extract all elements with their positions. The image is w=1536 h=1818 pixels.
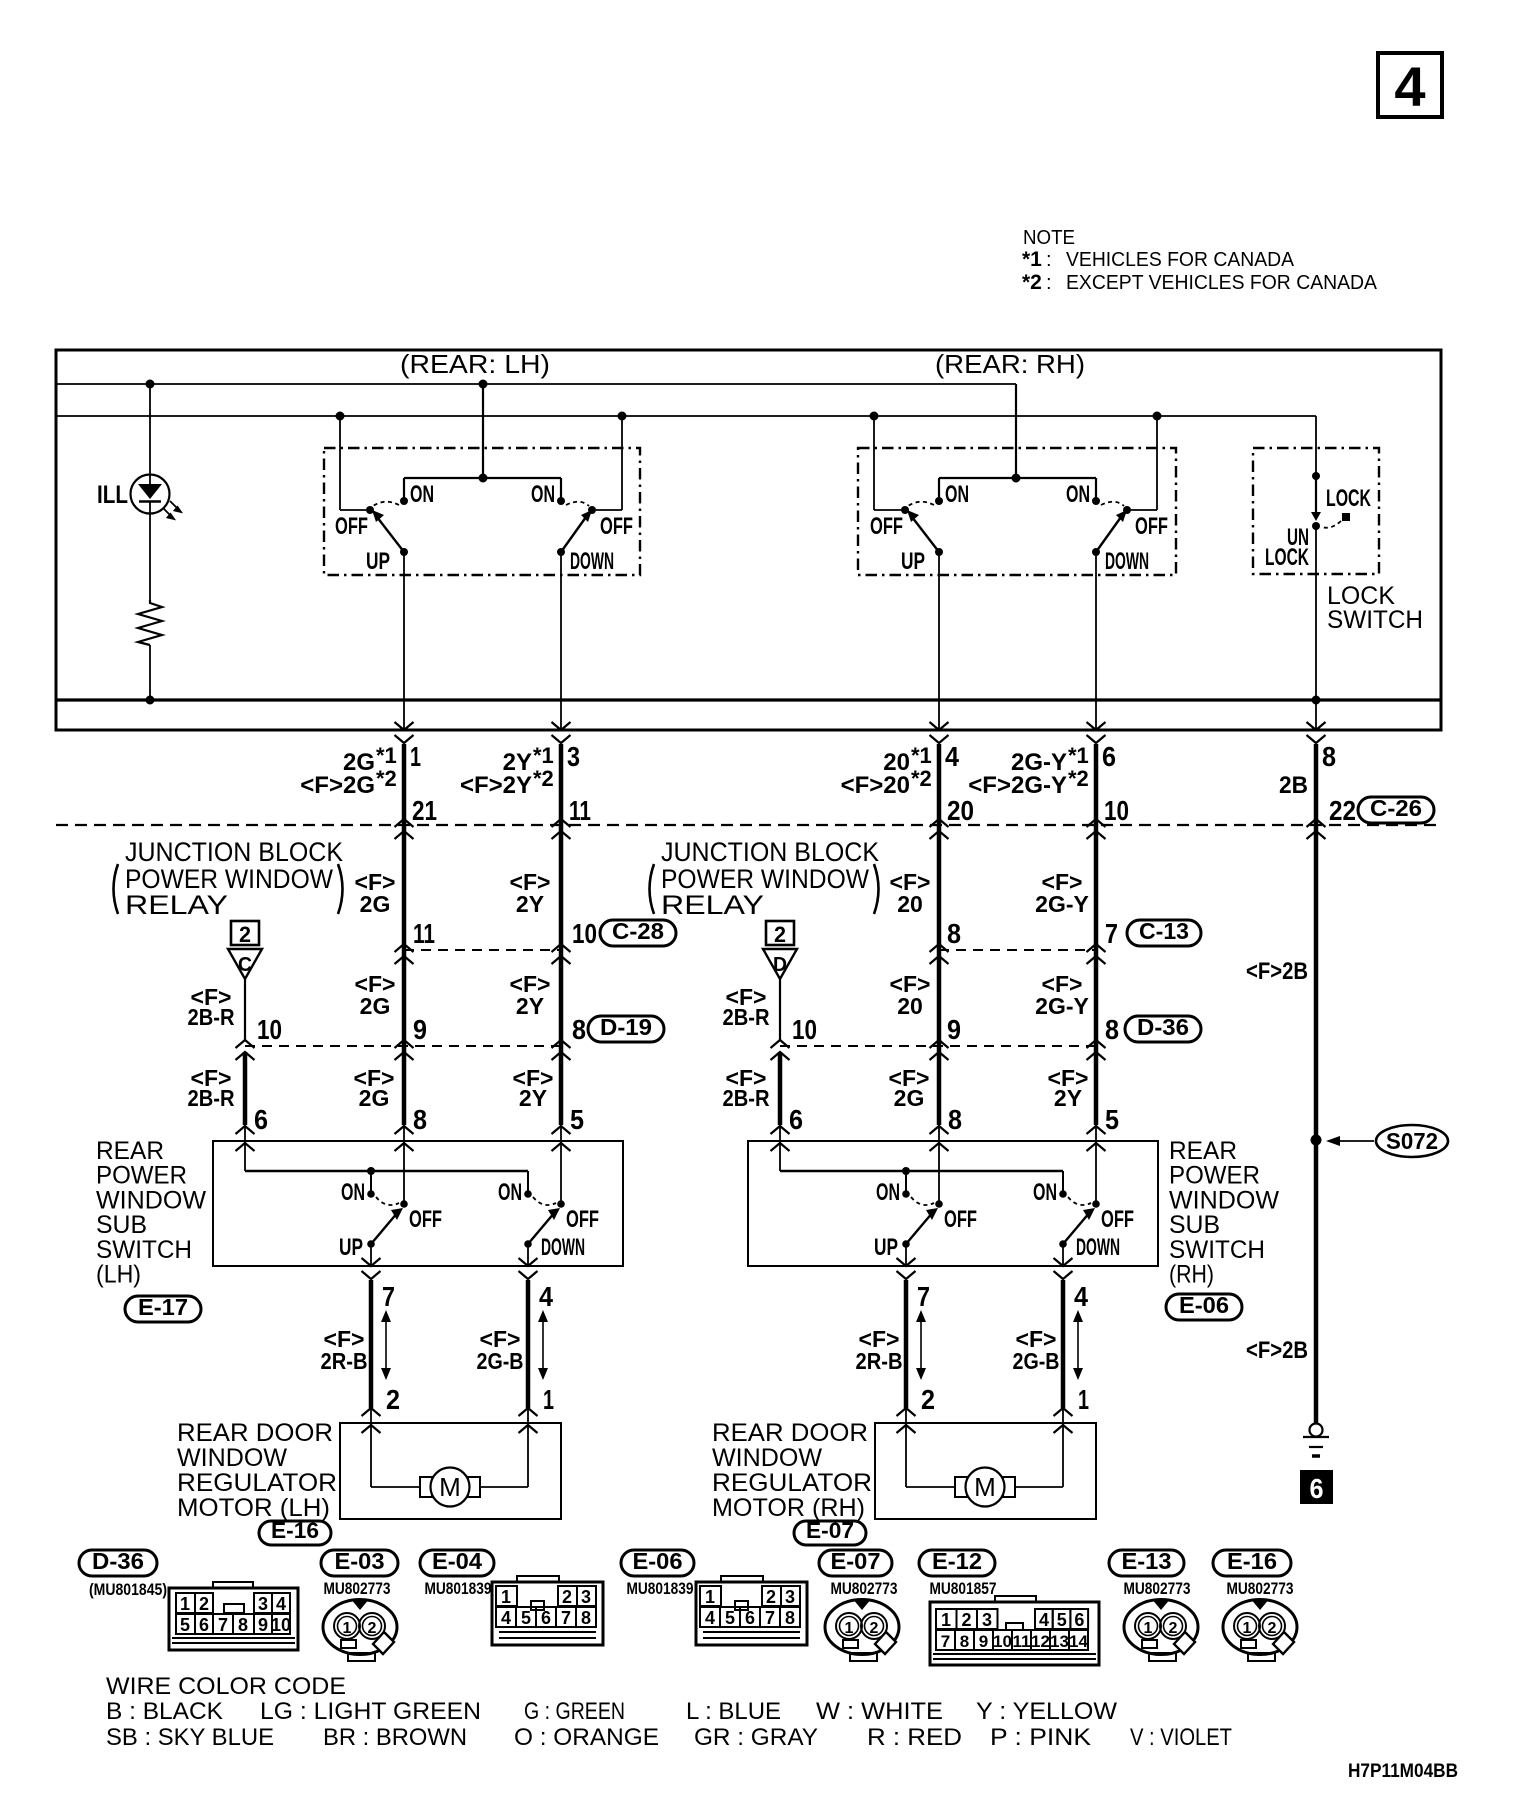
- svg-text:6: 6: [1102, 741, 1116, 772]
- svg-text:2B: 2B: [1279, 772, 1308, 799]
- svg-text:<F>2B: <F>2B: [1246, 1337, 1308, 1364]
- svg-text:RELAY: RELAY: [125, 890, 228, 920]
- svg-text:E-07: E-07: [806, 1518, 854, 1543]
- svg-text:E-04: E-04: [432, 1548, 482, 1574]
- svg-text:ON: ON: [876, 1179, 900, 1206]
- wire 2G-Y vertical thick: [1094, 744, 1099, 1125]
- svg-text:1: 1: [1243, 1620, 1252, 1637]
- svg-text:C-26: C-26: [1370, 795, 1422, 821]
- svg-text:ON: ON: [531, 481, 555, 508]
- svg-text:4: 4: [705, 1608, 715, 1628]
- svg-text:*1: *1: [1068, 743, 1089, 768]
- connector drawing D-36: [169, 1588, 298, 1650]
- svg-text:11: 11: [413, 918, 435, 949]
- svg-text:UP: UP: [339, 1234, 363, 1261]
- connector arrows at main box bottom: [395, 722, 414, 730]
- svg-text:7: 7: [1105, 918, 1118, 949]
- svg-text:C-13: C-13: [1139, 918, 1189, 944]
- contact LOCK square: [1342, 513, 1350, 521]
- dashed arc ON-OFF left: [373, 502, 399, 506]
- svg-text:MU802773: MU802773: [1227, 1579, 1294, 1598]
- svg-text:E-03: E-03: [335, 1548, 385, 1574]
- dashed line relay row RH: [939, 949, 1096, 951]
- rear RH switch dash-dot box: [858, 448, 1176, 575]
- bus wire lower: [56, 415, 1316, 417]
- svg-text:1: 1: [543, 1384, 554, 1415]
- svg-text:REGULATOR: REGULATOR: [177, 1469, 337, 1497]
- svg-text:21: 21: [412, 795, 437, 826]
- sheet ref box 6: [1300, 1470, 1333, 1504]
- svg-text:P : PINK: P : PINK: [990, 1724, 1091, 1751]
- svg-text:D: D: [773, 954, 787, 976]
- svg-text:5: 5: [1057, 1610, 1067, 1630]
- svg-text:E-13: E-13: [1122, 1548, 1172, 1574]
- svg-text:ON: ON: [1066, 481, 1090, 508]
- svg-text:7: 7: [382, 1281, 395, 1312]
- svg-text:OFF: OFF: [409, 1206, 442, 1233]
- rear power window sub switch LH box: [213, 1141, 623, 1266]
- svg-text:*1: *1: [533, 743, 554, 768]
- svg-text:LOCK: LOCK: [1326, 485, 1371, 512]
- svg-text:DOWN: DOWN: [570, 548, 614, 575]
- connector drawing E-06: [696, 1582, 807, 1645]
- wire REAR LH feed: [479, 380, 488, 389]
- svg-text:MU801839: MU801839: [425, 1579, 492, 1598]
- connector label D-36: [79, 1550, 157, 1576]
- svg-text:2: 2: [870, 1620, 879, 1637]
- svg-text:2B-R: 2B-R: [723, 1085, 770, 1111]
- rear door window regulator motor RH: [875, 1423, 1096, 1519]
- svg-text:6: 6: [1310, 1473, 1324, 1504]
- svg-text::: :: [1046, 272, 1052, 294]
- svg-text:2G: 2G: [894, 1085, 925, 1111]
- connector label E-07 bottom: [819, 1550, 892, 1576]
- svg-text:1: 1: [343, 1620, 352, 1637]
- svg-text:V : VIOLET: V : VIOLET: [1130, 1724, 1232, 1751]
- svg-text:G : GREEN: G : GREEN: [524, 1698, 625, 1725]
- svg-text:M: M: [439, 1472, 461, 1502]
- svg-text:ON: ON: [410, 481, 434, 508]
- double arrow RH up: [920, 1320, 922, 1370]
- svg-text:5: 5: [180, 1615, 190, 1635]
- svg-text:BR : BROWN: BR : BROWN: [323, 1724, 467, 1751]
- node ILL ground junction: [146, 696, 155, 705]
- power window main switch outline box: [56, 350, 1441, 730]
- wire 2B-R thick RH: [778, 1052, 783, 1125]
- dashed arc ON-OFF left RH: [908, 502, 934, 506]
- svg-text:9: 9: [413, 1014, 427, 1045]
- svg-text:8: 8: [572, 1014, 586, 1045]
- svg-text:8: 8: [238, 1615, 248, 1635]
- wire RH switch right side: [1153, 412, 1162, 421]
- svg-text:20: 20: [897, 993, 923, 1019]
- wire lock switch to ground bus: [1315, 526, 1317, 700]
- svg-text:DOWN: DOWN: [1105, 548, 1149, 575]
- svg-text:C: C: [238, 954, 252, 976]
- svg-text:2Y: 2Y: [519, 1085, 547, 1111]
- svg-text:B : BLACK: B : BLACK: [106, 1698, 223, 1725]
- svg-text:<F>2Y: <F>2Y: [460, 772, 532, 799]
- wire 20 vertical thick: [937, 744, 942, 1125]
- LH switch common bar: [404, 477, 561, 479]
- svg-text:4: 4: [945, 741, 959, 772]
- svg-text:1: 1: [501, 1587, 511, 1607]
- wire switch output x=1096: [1095, 552, 1097, 730]
- contact OFF right RH: [1123, 506, 1131, 514]
- svg-text:7: 7: [561, 1608, 571, 1628]
- svg-text:*2: *2: [1068, 766, 1089, 791]
- svg-text:4: 4: [1394, 55, 1425, 118]
- svg-text:H7P11M04BB: H7P11M04BB: [1348, 1761, 1458, 1782]
- connector C-28: [600, 920, 676, 946]
- svg-text:2: 2: [921, 1384, 935, 1415]
- wire 2R-B RH: [904, 1280, 909, 1408]
- svg-text:R : RED: R : RED: [867, 1724, 962, 1751]
- contact ON left RH: [935, 497, 943, 505]
- svg-text:WINDOW: WINDOW: [712, 1444, 822, 1472]
- lock switch dash-dot box: [1253, 448, 1379, 574]
- connector E-06 ref: [1166, 1294, 1242, 1320]
- svg-text:EXCEPT VEHICLES FOR CANADA: EXCEPT VEHICLES FOR CANADA: [1066, 272, 1378, 294]
- svg-text:2: 2: [386, 1384, 400, 1415]
- svg-text:4: 4: [276, 1594, 286, 1614]
- connector label E-13: [1109, 1550, 1184, 1576]
- svg-text:Y : YELLOW: Y : YELLOW: [976, 1698, 1117, 1725]
- lock contact upper: [1312, 472, 1320, 480]
- svg-text:4: 4: [539, 1281, 553, 1312]
- node lock ground junction: [1312, 696, 1321, 705]
- svg-text:S072: S072: [1386, 1128, 1438, 1154]
- svg-text:5: 5: [1105, 1104, 1119, 1135]
- double arrow LH up: [385, 1320, 387, 1370]
- svg-text:7: 7: [765, 1608, 775, 1628]
- svg-text:8: 8: [581, 1608, 591, 1628]
- dashed arc ON-OFF right: [566, 502, 589, 506]
- contact ON left: [400, 497, 408, 505]
- wire LH switch left side: [336, 412, 345, 421]
- connector label E-16 bottom: [1213, 1550, 1291, 1576]
- svg-text:2G-Y: 2G-Y: [1035, 891, 1089, 917]
- wire ILL branch: [149, 384, 151, 487]
- wire 2Y vertical thick: [559, 744, 564, 1125]
- svg-text:UP: UP: [874, 1234, 898, 1261]
- svg-text:ON: ON: [341, 1179, 365, 1206]
- svg-text:8: 8: [960, 1632, 969, 1651]
- svg-text:2: 2: [562, 1587, 572, 1607]
- svg-text:JUNCTION BLOCK: JUNCTION BLOCK: [661, 837, 879, 867]
- svg-text:OFF: OFF: [870, 513, 903, 540]
- svg-text:7: 7: [218, 1615, 228, 1635]
- switch blade DOWN: [557, 548, 565, 556]
- dashed arc ON-OFF right RH: [1101, 502, 1124, 506]
- svg-text:(MU801845): (MU801845): [89, 1580, 167, 1599]
- svg-text:E-16: E-16: [1227, 1548, 1277, 1574]
- svg-text:DOWN: DOWN: [541, 1234, 585, 1261]
- svg-text:REAR DOOR: REAR DOOR: [712, 1419, 868, 1447]
- connector drawing E-16: [1223, 1600, 1297, 1655]
- svg-text:ON: ON: [1033, 1179, 1057, 1206]
- node S072: [1311, 1135, 1322, 1146]
- S072 callout: [1338, 1140, 1374, 1142]
- wire 2R-B LH: [369, 1280, 374, 1408]
- switch blade DOWN RH: [1092, 548, 1100, 556]
- svg-text:8: 8: [947, 918, 961, 949]
- wire lock switch feed: [1315, 416, 1317, 476]
- svg-text:E-07: E-07: [831, 1548, 881, 1574]
- svg-text:MU801857: MU801857: [930, 1579, 997, 1598]
- svg-text:2Y: 2Y: [516, 993, 544, 1019]
- svg-text:OFF: OFF: [600, 513, 633, 540]
- svg-text:MU802773: MU802773: [831, 1579, 898, 1598]
- dashed arc lock: [1322, 521, 1341, 528]
- svg-text:W : WHITE: W : WHITE: [816, 1698, 943, 1725]
- svg-text:10: 10: [993, 1632, 1012, 1651]
- ground bus wire: [56, 698, 1441, 701]
- svg-text:LG : LIGHT GREEN: LG : LIGHT GREEN: [260, 1698, 481, 1725]
- svg-text:*1: *1: [911, 743, 932, 768]
- svg-text:*2: *2: [1022, 271, 1042, 294]
- svg-text:*2: *2: [533, 766, 554, 791]
- RH switch common bar: [939, 477, 1096, 479]
- svg-text:2G-Y: 2G-Y: [1035, 993, 1089, 1019]
- svg-text:6: 6: [745, 1608, 755, 1628]
- svg-text:9: 9: [979, 1632, 988, 1651]
- svg-text:2: 2: [239, 922, 251, 947]
- svg-text:VEHICLES FOR CANADA: VEHICLES FOR CANADA: [1066, 249, 1295, 271]
- connector arrows at dashed line: [395, 819, 414, 827]
- wire switch output x=939: [938, 552, 940, 730]
- svg-text:6: 6: [1074, 1610, 1084, 1630]
- svg-text:<F>2G: <F>2G: [300, 772, 375, 799]
- svg-text:1: 1: [705, 1587, 715, 1607]
- svg-text:20: 20: [897, 891, 923, 917]
- svg-text:22: 22: [1329, 795, 1356, 826]
- svg-text:2Y: 2Y: [516, 891, 544, 917]
- connector label E-06 bottom: [621, 1550, 694, 1576]
- dashed line junction row LH: [245, 1045, 561, 1047]
- svg-text:SB : SKY BLUE: SB : SKY BLUE: [106, 1724, 274, 1751]
- lock blade: [1315, 476, 1317, 512]
- svg-text:OFF: OFF: [1135, 513, 1168, 540]
- svg-text:8: 8: [948, 1104, 962, 1135]
- svg-text:E-06: E-06: [1179, 1292, 1229, 1318]
- svg-text:MU801839: MU801839: [627, 1579, 694, 1598]
- contact OFF left: [366, 506, 374, 514]
- svg-text:*1: *1: [376, 743, 397, 768]
- svg-text:2: 2: [199, 1594, 209, 1614]
- svg-text:ILL: ILL: [97, 481, 128, 509]
- svg-text:2: 2: [1169, 1620, 1178, 1637]
- dashed line relay row LH: [404, 949, 561, 951]
- svg-text:2R-B: 2R-B: [856, 1348, 903, 1374]
- rear LH switch dash-dot box: [324, 448, 640, 575]
- svg-text:10: 10: [271, 1615, 291, 1635]
- svg-text:2G: 2G: [360, 891, 391, 917]
- connector arrows into sub switch boxes: [236, 1126, 255, 1134]
- wire 2G vertical thick: [402, 744, 407, 1125]
- svg-text:RELAY: RELAY: [661, 890, 764, 920]
- wire LH switch right side: [618, 412, 627, 421]
- svg-text:2: 2: [961, 1610, 971, 1630]
- svg-text:(REAR: LH): (REAR: LH): [400, 349, 550, 379]
- connector label E-12: [919, 1550, 995, 1576]
- svg-text:WIRE COLOR CODE: WIRE COLOR CODE: [106, 1673, 346, 1700]
- svg-text:D-19: D-19: [600, 1014, 652, 1040]
- wire 2B-R from triangle D: [779, 979, 781, 1040]
- svg-text:6: 6: [199, 1615, 209, 1635]
- svg-text:REGULATOR: REGULATOR: [712, 1469, 872, 1497]
- wire REAR RH feed: [1015, 384, 1017, 478]
- connector drawing E-03: [323, 1600, 397, 1655]
- svg-text:8: 8: [413, 1104, 427, 1135]
- svg-text:JUNCTION BLOCK: JUNCTION BLOCK: [125, 837, 343, 867]
- connector drawing E-04: [492, 1582, 603, 1645]
- svg-text:UP: UP: [901, 548, 925, 575]
- svg-text:5: 5: [570, 1104, 584, 1135]
- svg-text:4: 4: [1074, 1281, 1088, 1312]
- switch blade UP: [400, 548, 408, 556]
- dashed line junction row RH: [780, 1045, 1096, 1047]
- connector E-17: [125, 1296, 201, 1322]
- svg-text:E-17: E-17: [138, 1294, 188, 1320]
- svg-text:(LH): (LH): [96, 1261, 141, 1289]
- svg-text:6: 6: [254, 1104, 268, 1135]
- svg-text:1: 1: [180, 1594, 190, 1614]
- wire 2B-R from triangle C: [244, 979, 246, 1040]
- node ILL branch junction: [146, 380, 155, 389]
- svg-text:3: 3: [567, 741, 580, 772]
- svg-text:13: 13: [1050, 1632, 1069, 1651]
- svg-text:*2: *2: [911, 766, 932, 791]
- svg-text:2R-B: 2R-B: [321, 1348, 368, 1374]
- svg-text:10: 10: [572, 918, 597, 949]
- svg-text:1: 1: [845, 1620, 854, 1637]
- svg-text:<F>2B: <F>2B: [1246, 958, 1308, 985]
- svg-text:C-28: C-28: [612, 918, 664, 944]
- svg-text:NOTE: NOTE: [1023, 227, 1075, 249]
- wire switch output x=561: [560, 552, 562, 730]
- contact ON right: [557, 497, 565, 505]
- svg-text:10: 10: [257, 1014, 282, 1045]
- connector C-26: [1358, 797, 1434, 823]
- contact OFF left RH: [901, 506, 909, 514]
- svg-text:2B-R: 2B-R: [723, 1004, 770, 1030]
- svg-text:<F>20: <F>20: [841, 772, 910, 799]
- svg-text:*2: *2: [376, 766, 397, 791]
- wire 2Y into sub switch: [560, 1125, 562, 1204]
- svg-text:OFF: OFF: [1101, 1206, 1134, 1233]
- svg-text:2G: 2G: [360, 993, 391, 1019]
- svg-text:O : ORANGE: O : ORANGE: [514, 1724, 659, 1751]
- svg-text:12: 12: [1031, 1632, 1050, 1651]
- connector E-16 ref: [259, 1521, 331, 1545]
- svg-text:ON: ON: [498, 1179, 522, 1206]
- wire RH switch left side: [870, 412, 879, 421]
- double arrow LH down: [542, 1320, 544, 1370]
- svg-text:2Y: 2Y: [1054, 1085, 1082, 1111]
- connector drawing E-13: [1124, 1600, 1198, 1655]
- svg-text:2: 2: [368, 1620, 377, 1637]
- svg-text:WINDOW: WINDOW: [177, 1444, 287, 1472]
- svg-text:8: 8: [785, 1608, 795, 1628]
- svg-text:5: 5: [521, 1608, 531, 1628]
- svg-text:14: 14: [1069, 1632, 1088, 1651]
- svg-text:6: 6: [541, 1608, 551, 1628]
- svg-text:8: 8: [1105, 1014, 1119, 1045]
- svg-text:2G-B: 2G-B: [477, 1348, 524, 1374]
- connector E-07 ref: [794, 1521, 866, 1545]
- bus wire upper: [56, 383, 1016, 385]
- dashed connector line full width: [56, 824, 1441, 826]
- svg-text:3: 3: [785, 1587, 795, 1607]
- svg-text:2: 2: [1268, 1620, 1277, 1637]
- svg-text:1: 1: [1078, 1384, 1089, 1415]
- svg-text:11: 11: [1013, 1632, 1031, 1651]
- svg-text:ON: ON: [945, 481, 969, 508]
- svg-text:D-36: D-36: [92, 1548, 144, 1574]
- svg-text:OFF: OFF: [566, 1206, 599, 1233]
- connector label E-03: [321, 1550, 398, 1576]
- wire 20 into sub switch: [938, 1125, 940, 1204]
- svg-text:OFF: OFF: [944, 1206, 977, 1233]
- svg-text:GR : GRAY: GR : GRAY: [694, 1724, 818, 1751]
- svg-text:9: 9: [947, 1014, 961, 1045]
- wire 2G into sub switch: [403, 1125, 405, 1204]
- svg-text:3: 3: [581, 1587, 591, 1607]
- svg-text:7: 7: [941, 1632, 950, 1651]
- relay connector 2 triangle D: [766, 921, 794, 945]
- sheet number box 4: [1378, 53, 1442, 117]
- svg-text:E-16: E-16: [271, 1518, 319, 1543]
- connector D-36 ref: [1125, 1016, 1201, 1042]
- svg-text:REAR DOOR: REAR DOOR: [177, 1419, 333, 1447]
- svg-text:7: 7: [917, 1281, 930, 1312]
- rear power window sub switch RH box: [748, 1141, 1158, 1266]
- connector label E-04: [420, 1550, 494, 1576]
- wire 2B vertical thick: [1314, 744, 1319, 1424]
- svg-text:10: 10: [1104, 795, 1129, 826]
- wire 2B-R thick LH: [243, 1052, 248, 1125]
- svg-text:3: 3: [258, 1594, 268, 1614]
- svg-text:1: 1: [941, 1610, 951, 1630]
- svg-text:20: 20: [947, 795, 974, 826]
- connector drawing E-07: [825, 1600, 899, 1655]
- svg-text:3: 3: [982, 1610, 992, 1630]
- svg-text:1: 1: [1144, 1620, 1153, 1637]
- svg-text:6: 6: [789, 1104, 803, 1135]
- svg-text:2G: 2G: [359, 1085, 390, 1111]
- lock contact lower: [1312, 522, 1320, 530]
- connector D-19: [588, 1016, 664, 1042]
- svg-text:2B-R: 2B-R: [188, 1004, 235, 1030]
- svg-text:E-12: E-12: [932, 1548, 982, 1574]
- wire switch output x=404: [403, 552, 405, 730]
- svg-text:2: 2: [774, 922, 786, 947]
- relay connector 2 triangle C: [231, 921, 259, 945]
- connector arrows junction row: [236, 1040, 255, 1048]
- svg-text::: :: [1046, 249, 1052, 271]
- connector C-13: [1127, 920, 1201, 946]
- connector drawing E-12: [930, 1602, 1099, 1665]
- svg-text:(REAR: RH): (REAR: RH): [935, 349, 1085, 379]
- svg-text:MU802773: MU802773: [1124, 1579, 1191, 1598]
- svg-text:LOCK: LOCK: [1265, 544, 1309, 571]
- svg-text:*1: *1: [1022, 248, 1042, 271]
- svg-text:MU802773: MU802773: [324, 1579, 391, 1598]
- svg-text:2: 2: [766, 1587, 776, 1607]
- svg-text:11: 11: [569, 795, 591, 826]
- illumination lamp LED: [131, 475, 170, 514]
